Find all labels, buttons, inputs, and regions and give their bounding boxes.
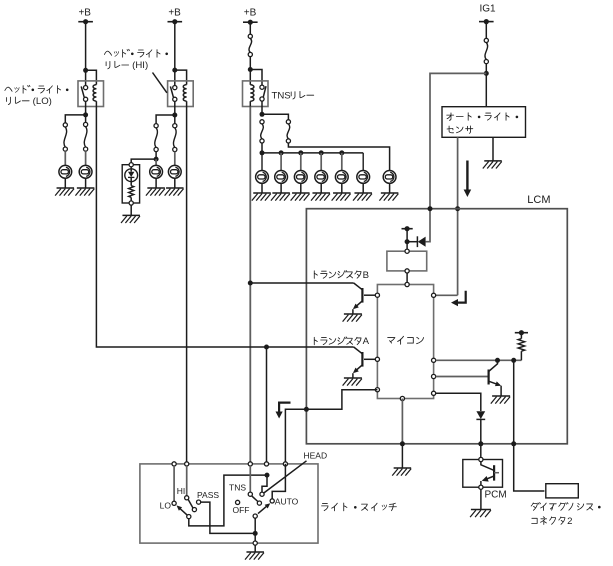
ground TNS lamp5: [332, 193, 351, 201]
wire PASS to ground node: [197, 500, 256, 533]
lamp high-beam left: [150, 165, 163, 178]
lamp TNS 1: [256, 171, 269, 184]
pin microcomputer right1: [432, 293, 436, 297]
wire diag output: [513, 360, 515, 444]
flow arrow sensor signal: [464, 161, 472, 198]
junction +B1 branch: [83, 68, 88, 73]
wire PCM to ground: [480, 489, 482, 509]
wire LCM to PCM: [480, 444, 482, 458]
module box LCM: [306, 209, 567, 444]
lamp low-beam left: [59, 165, 72, 178]
ground light switch: [245, 552, 264, 560]
regulator box in LCM: [387, 251, 427, 271]
label auto light sensor: [447, 113, 519, 134]
pin microcomputer right2: [432, 358, 436, 362]
connector pin pair on +B TNS feed: [248, 34, 252, 56]
wire branch to left low-beam: [65, 115, 85, 123]
junction bus lamp2: [279, 150, 284, 155]
node HI contact: [185, 496, 189, 500]
wire dimmer common: [189, 475, 265, 526]
pin microcomputer bottom: [400, 396, 404, 400]
wire TNS contact output: [261, 101, 263, 114]
junction TNS branch: [248, 67, 253, 72]
label PASS: [197, 490, 219, 500]
wire bus to TNS lamp5: [341, 153, 343, 170]
wire TNS lamp bus: [262, 152, 363, 154]
wire HEAD jog: [262, 475, 267, 492]
label transistor B: [314, 270, 369, 281]
wire microcomputer output to resistor node: [436, 359, 522, 361]
leader line HEAD: [264, 461, 307, 493]
junction LCM to diagnosis: [511, 441, 516, 446]
svg-text:PASS: PASS: [197, 490, 219, 500]
ground left high-beam: [146, 188, 165, 196]
transistor in PCM: [481, 462, 499, 486]
relay box headlight LO: [78, 81, 104, 107]
ground right low-beam: [75, 188, 94, 196]
junction bus lamp4: [319, 150, 324, 155]
relay HI coil: [183, 85, 186, 107]
connector pair left low-beam: [63, 123, 67, 151]
wire +B3 down: [249, 22, 251, 34]
wire IG1 to sensor: [485, 64, 487, 107]
svg-text:IG1: IG1: [479, 3, 496, 14]
label diagnosis connector 2: [531, 503, 600, 527]
relay box TNS: [243, 81, 269, 107]
indicator box high-beam: [122, 165, 139, 203]
wire to TNS junction: [249, 57, 251, 85]
pin microcomputer left1: [375, 293, 379, 297]
junction IG1 branch: [484, 71, 489, 76]
microcomputer box: [377, 285, 433, 399]
junction LO coil line to switch HEAD: [264, 345, 269, 350]
transistor A: [353, 347, 375, 378]
label OFF: [233, 505, 250, 515]
junction diode node: [405, 239, 410, 244]
wire indicator to ground: [130, 205, 132, 215]
LED high-beam indicator: [125, 167, 138, 182]
svg-text:+B: +B: [244, 8, 257, 19]
wire +B1 to relay LO: [85, 22, 87, 86]
wire LCM ground: [401, 444, 403, 468]
junction IG1 wire on LCM edge: [428, 206, 433, 211]
wire bus to TNS lamp3: [300, 153, 302, 170]
wire LO coil drive: [96, 107, 353, 348]
wire TNS lamp3 to ground: [300, 183, 302, 193]
junction transistor Q collector: [495, 358, 500, 363]
svg-text:(HI): (HI): [130, 60, 149, 71]
pin indicator top: [129, 163, 133, 167]
svg-text:B: B: [363, 270, 369, 281]
pin microcomputer right3: [432, 374, 436, 378]
resistor indicator: [129, 178, 134, 201]
wire HI pin to contact: [186, 466, 188, 496]
ground transistor A: [343, 378, 362, 386]
wire TNS pin to contact: [249, 466, 251, 492]
wire relay LO output: [85, 101, 87, 115]
ground TNS lamp7: [379, 193, 398, 201]
wire bus to TNS lamp6: [362, 153, 364, 170]
pin regulator top: [405, 249, 409, 253]
label TNS relay: [272, 90, 314, 101]
wire TNS left to bus: [261, 143, 263, 153]
wire branch to LO relay coil: [86, 70, 97, 84]
wire HEAD contact feed: [266, 347, 268, 462]
junction bus lamp3: [298, 150, 303, 155]
wire TNS coil drive: [249, 107, 251, 462]
ground indicator: [121, 215, 140, 223]
wire microcomputer to diode D2: [436, 393, 481, 411]
connector pair right low-beam: [84, 122, 88, 151]
wire TNS lamp1 to ground: [261, 183, 263, 193]
wire lamp to ground: [155, 178, 157, 188]
main switch arm: [253, 503, 270, 518]
svg-text:(LO): (LO): [30, 96, 52, 107]
wire +B2 to relay HI: [174, 22, 176, 86]
node HEAD contact: [260, 492, 264, 496]
wire AUTO jog: [272, 464, 285, 499]
junction HI lamps: [172, 113, 177, 118]
junction LCM to PCM: [478, 441, 483, 446]
power internal supply B+ in LCM: [402, 226, 413, 231]
svg-text:AUTO: AUTO: [275, 496, 299, 506]
ground transistor B: [343, 314, 362, 322]
pin regulator bottom: [405, 269, 409, 273]
svg-text:PCM: PCM: [485, 490, 507, 501]
svg-text:TNS: TNS: [272, 90, 291, 101]
pin light switch ground: [253, 541, 257, 545]
lamp TNS 2: [275, 171, 288, 184]
wire TNS lamp6 to ground: [362, 183, 364, 193]
resistor pull-up: [518, 333, 525, 361]
wire microcomputer to transistor Q base: [436, 376, 488, 378]
pin microcomputer top: [405, 282, 409, 286]
junction high-beam indicator: [154, 157, 159, 162]
ground TNS lamp6: [353, 193, 372, 201]
label LO: [160, 500, 172, 510]
relay LO coil: [93, 85, 96, 107]
wire branch to HI relay coil: [175, 70, 187, 85]
wire LCM to diagnosis connector: [514, 444, 545, 491]
TNS arm alternate position: [252, 496, 262, 505]
wire bus to TNS lamp4: [320, 153, 322, 170]
wire bus to TNS lamp1: [261, 153, 263, 170]
svg-text:LCM: LCM: [527, 194, 550, 206]
flow arrow AUTO input: [276, 403, 291, 419]
label LCM: [527, 194, 550, 206]
label AUTO: [275, 496, 299, 506]
junction switch ground node: [253, 531, 258, 536]
wire bus to TNS lamp2: [280, 153, 282, 170]
wire to right high-beam lamp: [174, 152, 176, 166]
svg-text:LO: LO: [160, 500, 172, 510]
junction LO lamps: [83, 112, 88, 117]
power +B supply for headlight relay HI: [168, 7, 183, 24]
ground sensor: [483, 161, 502, 169]
svg-text:OFF: OFF: [233, 505, 250, 515]
label PCM: [485, 490, 507, 501]
ground transistor Q: [491, 396, 510, 404]
ground TNS lamp4: [311, 193, 330, 201]
svg-text:+B: +B: [78, 7, 91, 18]
wire LO pin to contact: [173, 466, 175, 501]
node LO contact: [172, 501, 176, 505]
pin light switch LO: [172, 462, 176, 466]
ground left low-beam: [55, 188, 74, 196]
wire regulator to microcomputer: [406, 273, 408, 282]
wire TNS lamp7 to ground: [389, 183, 391, 193]
wire TNS right feed: [288, 143, 389, 170]
junction HEAD node: [265, 473, 270, 478]
label HI: [177, 486, 186, 496]
wire branch to right high-beam: [174, 115, 176, 124]
wire IG1 branch to LCM diode: [426, 73, 487, 241]
lamp high-beam right: [168, 165, 181, 178]
diode D2 output: [476, 411, 485, 444]
label headlight relay HI: [104, 49, 168, 71]
diagnosis connector box: [546, 484, 579, 498]
connector pair left high-beam: [154, 124, 158, 152]
wire sensor to ground: [492, 137, 494, 161]
wire branch to left high-beam: [156, 115, 175, 124]
power +B supply for TNS relay: [243, 8, 258, 25]
label light switch: [322, 503, 397, 511]
wire TNS lamp2 to ground: [280, 183, 282, 193]
junction +B2 branch: [172, 68, 177, 73]
ground right high-beam: [165, 188, 184, 196]
auto light sensor box: [442, 107, 526, 138]
svg-text:TNS: TNS: [229, 482, 246, 492]
label TNS: [229, 482, 246, 492]
wire TNS lamp5 to ground: [341, 183, 343, 193]
relay TNS contact: [260, 85, 266, 101]
wire branch to right low-beam: [85, 115, 87, 123]
svg-text:HI: HI: [177, 486, 186, 496]
wire transistor B collector to TNS coil: [250, 282, 353, 284]
wire branch to TNS relay contact: [250, 70, 262, 86]
junction bus lamp1: [260, 150, 265, 155]
power IG1 supply: [479, 3, 496, 24]
wire lamp to ground: [174, 178, 176, 188]
node TNS contact: [248, 492, 252, 496]
junction LCM ground: [400, 441, 405, 446]
power internal supply for pull-up: [515, 330, 528, 335]
pin light switch HEAD: [264, 462, 268, 466]
junction AUTO wire on LCM edge: [304, 407, 309, 412]
svg-text:A: A: [363, 336, 370, 347]
node OFF position: [236, 500, 240, 504]
pin light switch TNS: [248, 462, 252, 466]
ground PCM: [470, 510, 491, 518]
dimmer arm alternate position: [188, 500, 196, 512]
wire supply to diode node: [406, 229, 408, 249]
pin microcomputer left2: [375, 357, 379, 361]
transistor B: [353, 283, 375, 314]
wire lamp to ground: [64, 178, 66, 188]
pin microcomputer left3: [375, 388, 379, 392]
pin light switch HI: [185, 462, 189, 466]
connector pair right high-beam: [173, 124, 177, 152]
diode D1 backup feed: [407, 236, 426, 247]
lamp TNS 7: [383, 171, 396, 184]
relay box headlight HI: [168, 81, 194, 107]
connector pin pair on IG1 feed: [484, 38, 488, 63]
junction sensor wire on LCM edge: [455, 206, 460, 211]
flow arrow sensor input: [451, 291, 466, 307]
connector pair TNS right: [286, 120, 290, 143]
label microcomputer: [388, 336, 424, 344]
junction diag line: [511, 358, 516, 363]
node AUTO contact: [270, 499, 274, 503]
relay LO contact: [81, 86, 88, 102]
svg-text:HEAD: HEAD: [304, 450, 328, 460]
wire relay HI output: [174, 101, 176, 115]
ground TNS lamp1: [252, 193, 271, 201]
label headlight relay LO: [5, 85, 69, 107]
relay TNS coil: [250, 85, 254, 107]
junction TNS coil to transistor B: [248, 281, 253, 286]
label HEAD: [304, 450, 328, 460]
lamp TNS 3: [294, 171, 307, 184]
dimmer switch arm: [177, 505, 191, 518]
pin microcomputer right4: [432, 391, 436, 395]
wire sensor output to LCM: [436, 137, 458, 295]
wire lamp to ground: [85, 178, 87, 188]
pin PCM top: [479, 457, 483, 461]
lamp TNS 6: [357, 171, 370, 184]
wire HI coil drive: [186, 107, 188, 462]
module box PCM: [463, 460, 503, 488]
wire IG1 down: [485, 22, 487, 39]
wire to junction high-beam left: [155, 152, 157, 160]
lamp low-beam right: [79, 165, 92, 178]
ground LCM: [392, 468, 411, 476]
wire to right low-beam lamp: [85, 151, 87, 165]
pin PCM bottom: [479, 485, 483, 489]
relay HI contact: [170, 86, 177, 102]
junction TNS output: [260, 112, 265, 117]
wire arm to ground pin: [254, 518, 256, 541]
label transistor A: [314, 336, 369, 347]
lamp TNS 4: [315, 171, 328, 184]
wire switch to ground: [254, 545, 256, 552]
ground TNS lamp2: [271, 193, 290, 201]
transistor Q: [489, 360, 502, 396]
svg-text:2: 2: [567, 516, 572, 527]
power +B supply for headlight relay LO: [78, 7, 93, 24]
pin indicator bottom: [129, 201, 133, 205]
wire branch to indicator: [131, 159, 156, 163]
wire to left low-beam lamp: [64, 151, 66, 165]
wire branch right TNS: [262, 114, 288, 119]
connector pair TNS left: [260, 120, 264, 143]
leader line relay HI label: [153, 73, 167, 93]
pin light switch AUTO: [283, 462, 287, 466]
wire microcomputer AUTO input: [285, 390, 377, 462]
lamp TNS 5: [335, 171, 348, 184]
wire TNS lamp4 to ground: [320, 183, 322, 193]
junction bus lamp5: [339, 150, 344, 155]
svg-text:+B: +B: [168, 7, 181, 18]
light switch box: [140, 464, 318, 543]
wire microcomputer ground: [401, 399, 403, 444]
wire to left high-beam lamp: [155, 159, 157, 165]
ground TNS lamp3: [291, 193, 310, 201]
